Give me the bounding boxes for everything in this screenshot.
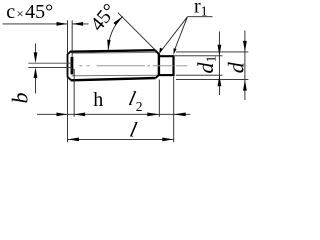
svg-text:h: h	[93, 89, 103, 111]
h left arrowhead (pointing right)	[57, 112, 68, 116]
svg-text:b: b	[8, 93, 33, 104]
45deg arc upper arrowhead (pointing up-right to diagonal)	[113, 16, 123, 25]
h extension line: left face extended below	[66, 77, 68, 142]
centerline dash through dog	[153, 65, 174, 67]
screw body bottom edge	[71, 78, 156, 80]
centerline dot	[148, 65, 151, 67]
d bottom extension line	[176, 79, 248, 81]
body right face	[158, 54, 160, 76]
l2 extension line: body right face extended below	[158, 80, 160, 117]
screw body top edge	[71, 50, 155, 52]
slot bottom bar	[71, 57, 74, 75]
d1 dimension line	[218, 32, 220, 96]
l right arrowhead (pointing right)	[162, 138, 173, 142]
45deg arc lower arrowhead (pointing down to top edge)	[107, 40, 110, 51]
svg-text:c×45°: c×45°	[6, 1, 53, 23]
centerline dots left	[79, 65, 89, 67]
svg-text:r1: r1	[194, 0, 208, 19]
h right arrowhead (pointing left)	[74, 112, 85, 116]
h extension line: right	[73, 69, 75, 117]
d bottom arrowhead (pointing up)	[243, 80, 247, 91]
svg-text:45°: 45°	[86, 0, 121, 35]
l left arrowhead (pointing left)	[68, 138, 79, 142]
svg-text:2: 2	[136, 99, 143, 114]
centerline main dash	[97, 65, 146, 67]
b dimension line lower segment	[35, 72, 37, 93]
45deg angle dimension arc	[108, 16, 122, 50]
l2 left arrowhead (pointing right)	[147, 112, 159, 116]
r1 leader shelf	[187, 16, 212, 18]
b dimension line upper segment	[35, 44, 37, 59]
d1 top arrowhead (pointing down)	[218, 45, 222, 56]
dog point bottom edge	[159, 74, 174, 76]
svg-text:d: d	[223, 61, 248, 73]
d dimension line	[244, 31, 246, 101]
l2 right arrowhead (pointing left)	[174, 112, 186, 116]
dog point end face	[172, 55, 174, 76]
b upper arrowhead (pointing down)	[34, 52, 38, 63]
d1 top extension line	[175, 55, 223, 57]
45deg chamfer reference diagonal	[118, 13, 156, 51]
r1 end corner arrowhead	[174, 48, 177, 55]
l dimension line	[67, 138, 173, 140]
h and l2 shared dimension line	[37, 113, 190, 115]
svg-text:d1: d1	[193, 56, 220, 74]
r1 leader leg to dog end corner	[174, 17, 187, 51]
c dimension extension line (slot bottom extended up)	[71, 20, 73, 57]
r1 leader leg to dog root corner	[161, 17, 188, 52]
left face with chamfers	[68, 51, 72, 81]
l and l2 extension line: dog end extended below	[173, 76, 175, 142]
c dimension left arrowhead (pointing right)	[57, 22, 68, 26]
right chamfer bottom	[156, 75, 159, 78]
c dimension line left part	[3, 23, 68, 25]
c dimension line right tail	[72, 23, 88, 25]
thread root line bottom	[72, 74, 158, 76]
d1 bottom arrowhead (pointing up)	[218, 75, 222, 86]
svg-text:l: l	[128, 118, 140, 142]
c dimension right arrowhead (pointing left)	[72, 22, 83, 26]
d top arrowhead (pointing down)	[243, 41, 247, 52]
d top extension line	[176, 51, 248, 53]
slot side line lower / b extension	[28, 67, 72, 69]
dog point top edge	[159, 55, 174, 57]
r1 root corner arrowhead	[159, 48, 163, 55]
centerline dash right of dog	[176, 65, 188, 67]
thread root line top	[72, 51, 157, 54]
d1 bottom extension line	[176, 74, 223, 76]
c dimension extension line (left face extended up)	[66, 20, 68, 54]
slot side line upper / b extension	[28, 62, 72, 64]
b lower arrowhead (pointing up)	[34, 67, 38, 78]
right chamfer top	[155, 50, 159, 54]
